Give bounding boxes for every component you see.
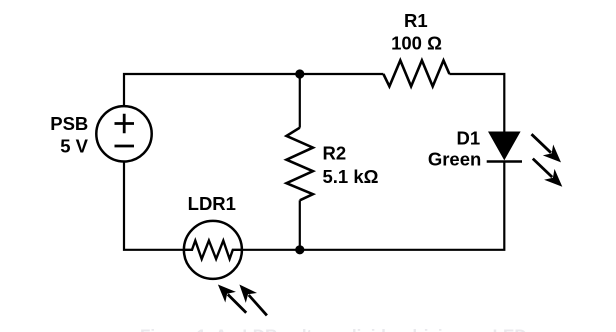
voltage source PSB circle [96, 106, 151, 161]
wire LED cathode down to bottom-right corner to junction [300, 162, 505, 250]
wire top junction down to R2 [299, 74, 301, 128]
svg-text:100 Ω: 100 Ω [391, 32, 442, 53]
svg-text:Green: Green [428, 149, 481, 170]
wire R2 down to bottom junction [299, 200, 301, 250]
light arrow to LDR1 (left) [218, 285, 246, 313]
svg-text:R2: R2 [323, 143, 347, 164]
wire top-left horizontal (source top to R1) [124, 74, 383, 106]
faint cropped caption remnant at bottom [140, 326, 527, 332]
voltage source minus sign [115, 145, 135, 148]
LED D1 cathode bar [487, 160, 522, 162]
wire LDR right side to bottom junction [242, 249, 299, 251]
svg-text:D1: D1 [457, 128, 481, 149]
photoresistor LDR1 zigzag [184, 241, 242, 259]
svg-text:LDR1: LDR1 [188, 193, 236, 214]
voltage source plus sign [115, 114, 135, 133]
photoresistor LDR1 circle [184, 221, 242, 279]
svg-text:R1: R1 [404, 10, 428, 31]
resistor R1 [383, 60, 449, 86]
resistor R2 [287, 128, 313, 201]
svg-text:5 V: 5 V [60, 135, 88, 156]
node junction bottom (dot) [295, 245, 304, 254]
wire source bottom to bottom-left corner to LDR [124, 161, 184, 250]
LED D1 triangle [489, 132, 519, 159]
svg-text:PSB: PSB [50, 113, 88, 134]
light arrow to LDR1 (right) [239, 285, 267, 316]
svg-text:Figure 1. An LDR voltage divid: Figure 1. An LDR voltage divider driving… [140, 326, 527, 332]
light arrow from D1 (lower) [533, 159, 563, 187]
node junction top (dot) [295, 69, 304, 78]
light arrow from D1 (upper) [532, 134, 562, 162]
wire R1 to right corner, down to LED anode [449, 74, 504, 134]
svg-text:5.1 kΩ: 5.1 kΩ [323, 166, 379, 187]
